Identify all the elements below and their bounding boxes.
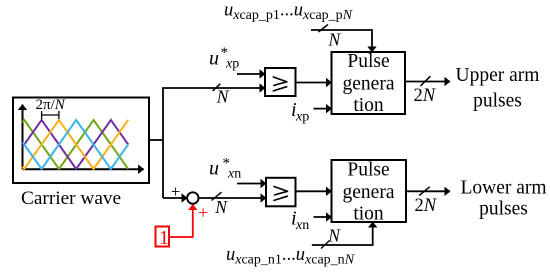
wire comparator U2 output <box>296 190 332 192</box>
pulse generation box 1 <box>332 52 406 114</box>
wire bottom branch to summer <box>163 197 187 199</box>
slash N bottom input <box>321 241 330 249</box>
slash 2N lower <box>419 187 430 196</box>
svg-text:+: + <box>198 203 208 223</box>
wire u*_xp arrow <box>237 73 265 75</box>
carrier wave box <box>13 98 149 184</box>
svg-text:N: N <box>214 197 228 217</box>
svg-text:N: N <box>216 87 230 107</box>
wire output lower 2N <box>406 190 450 192</box>
svg-text:pulses: pulses <box>473 91 522 112</box>
svg-text:2N: 2N <box>415 196 438 216</box>
svg-text:Pulse: Pulse <box>347 51 389 72</box>
carrier green wave <box>23 120 129 169</box>
svg-text:2N: 2N <box>414 86 437 106</box>
svg-text:tion: tion <box>353 204 384 225</box>
svg-text:1: 1 <box>159 227 169 249</box>
carrier cyan wave <box>23 120 129 169</box>
svg-text:N: N <box>328 30 342 50</box>
red wire from 1 to summer <box>169 205 193 238</box>
svg-text:Pulse: Pulse <box>347 160 389 181</box>
wire i_xp arrow <box>314 108 332 110</box>
carrier horizontal axis <box>23 168 144 170</box>
comparator U2 >= symbol <box>274 187 287 201</box>
slash N bottom branch <box>212 192 222 200</box>
svg-text:u: u <box>209 158 219 180</box>
svg-text:u: u <box>209 48 219 70</box>
carrier purple wave <box>23 120 129 169</box>
comparator U1 >= symbol <box>273 77 286 91</box>
carrier vertical axis <box>22 105 24 170</box>
svg-text:+: + <box>171 182 181 201</box>
svg-text:N: N <box>327 225 341 245</box>
wire u*_xn arrow <box>237 183 266 185</box>
wire u_xcap_p input to pulse box 1 <box>311 30 372 52</box>
wire comparator U1 output <box>296 82 332 84</box>
svg-text:2π/N: 2π/N <box>36 97 66 113</box>
wire i_xn arrow <box>314 216 332 218</box>
red gain box 1 <box>156 227 170 247</box>
wire output upper 2N <box>405 81 450 83</box>
wire top branch to comparator <box>162 87 265 89</box>
slash 2N upper <box>420 76 430 86</box>
carrier orange wave <box>23 120 129 169</box>
comparator U2 box <box>266 178 296 207</box>
wire summer to comparator U2 <box>198 197 266 199</box>
dimension bracket 2pi/N <box>42 111 59 119</box>
svg-text:uxcap_p1...uxcap_pN: uxcap_p1...uxcap_pN <box>224 1 353 24</box>
svg-text:xn: xn <box>295 218 309 233</box>
svg-text:xn: xn <box>227 167 241 182</box>
summing junction <box>187 192 198 203</box>
pulse generation box 2 <box>332 160 407 222</box>
comparator U1 box <box>265 68 296 96</box>
svg-text:genera: genera <box>343 74 395 95</box>
svg-text:Lower arm: Lower arm <box>460 178 546 199</box>
wire u_xcap_n input to pulse box 2 <box>312 222 373 245</box>
slash N top branch <box>213 84 221 91</box>
svg-text:pulses: pulses <box>479 199 528 220</box>
svg-text:tion: tion <box>353 95 384 116</box>
wire vertical split <box>162 88 164 198</box>
slash N top input <box>319 25 329 33</box>
svg-text:Carrier wave: Carrier wave <box>21 188 121 209</box>
svg-text:Upper arm: Upper arm <box>456 65 540 86</box>
svg-text:xp: xp <box>295 110 309 125</box>
svg-text:genera: genera <box>343 182 395 203</box>
svg-text:uxcap_n1...uxcap_nN: uxcap_n1...uxcap_nN <box>226 245 355 268</box>
svg-text:xp: xp <box>225 57 239 72</box>
wire carrier output stub <box>148 139 163 141</box>
